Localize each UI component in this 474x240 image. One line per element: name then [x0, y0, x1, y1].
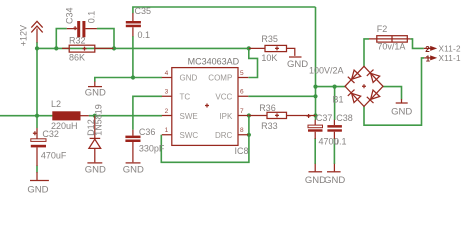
svg-text:330pF: 330pF — [139, 144, 165, 154]
svg-text:C32: C32 — [42, 129, 59, 139]
capacitor C35 — [126, 6, 151, 40]
svg-text:COMP: COMP — [208, 73, 232, 82]
svg-text:470uF: 470uF — [41, 151, 67, 161]
svg-text:1N5819: 1N5819 — [94, 104, 104, 136]
wire VCC pin6 — [248, 95, 315, 97]
wire X11-1 to bridge bottom — [364, 58, 424, 125]
ground C38 GND — [324, 164, 345, 186]
wire VCC rail vertical — [315, 7, 317, 120]
svg-text:4: 4 — [165, 70, 169, 77]
svg-text:L2: L2 — [51, 99, 61, 109]
bridge diode top-right — [367, 70, 380, 83]
bridge diode bottom-left — [348, 90, 361, 103]
wire C37 lower — [314, 138, 316, 164]
resistor R32 — [62, 36, 113, 63]
wire C35 top rail — [133, 7, 316, 13]
resistor R36 R33 — [249, 103, 316, 131]
connector pin X11-2 — [424, 44, 461, 53]
svg-text:GND: GND — [180, 73, 198, 82]
wire C38 drop — [334, 87, 336, 120]
ground pin4 GND — [85, 82, 106, 99]
svg-text:MC34063AD: MC34063AD — [188, 57, 240, 67]
svg-text:GND: GND — [85, 88, 106, 99]
svg-text:GND: GND — [391, 106, 412, 117]
wire SWC-DRC loop — [161, 116, 249, 163]
svg-text:X11-1: X11-1 — [439, 54, 461, 63]
fuse F2 — [369, 24, 410, 52]
bridge rectifier B1 — [309, 66, 383, 107]
svg-text:0.1: 0.1 — [334, 136, 347, 146]
svg-text:C37: C37 — [316, 113, 333, 123]
svg-text:+12V: +12V — [18, 25, 28, 46]
svg-text:C38: C38 — [336, 113, 353, 123]
ground bridge GND — [391, 99, 412, 117]
svg-text:B1: B1 — [333, 95, 344, 105]
ground D12 GND — [85, 163, 106, 175]
wire pin5 to R35 — [249, 48, 258, 77]
svg-text:TC: TC — [180, 93, 191, 102]
wire C35 to pin4 — [132, 36, 134, 78]
svg-text:IC8: IC8 — [235, 146, 249, 156]
wire main bus +12V — [37, 47, 249, 49]
ground C36 GND — [123, 163, 144, 175]
svg-text:2: 2 — [165, 108, 169, 115]
svg-text:SWC: SWC — [180, 131, 199, 140]
svg-text:DRC: DRC — [215, 131, 233, 140]
ground C32 GND — [27, 172, 49, 195]
svg-text:R33: R33 — [261, 121, 278, 131]
wire bridge to VCC — [316, 86, 347, 88]
svg-text:GND: GND — [287, 59, 308, 70]
svg-text:7: 7 — [240, 108, 244, 115]
svg-text:2: 2 — [425, 45, 430, 54]
svg-text:VCC: VCC — [215, 93, 232, 102]
svg-text:C34: C34 — [64, 7, 74, 24]
bridge diode top-left — [348, 70, 361, 83]
op-amp U1 IC8 MC34063AD box — [162, 57, 249, 156]
bridge diode bottom-right — [367, 90, 380, 103]
pin names IC8 — [180, 73, 233, 140]
svg-text:C36: C36 — [139, 127, 156, 137]
pin numbers IC8 — [165, 70, 244, 134]
inductor L2 — [51, 99, 89, 131]
wire +12V vertical — [36, 42, 38, 116]
svg-text:0.1: 0.1 — [138, 30, 151, 40]
svg-text:IPK: IPK — [219, 112, 233, 121]
connector pin X11-1 — [424, 54, 461, 63]
wire C34 loop — [56, 29, 114, 49]
svg-text:1: 1 — [165, 127, 169, 134]
supply +12V — [18, 21, 42, 46]
svg-text:5: 5 — [240, 70, 244, 77]
svg-text:GND: GND — [27, 184, 48, 195]
svg-text:8: 8 — [240, 127, 244, 134]
capacitor C32 polarized — [31, 128, 67, 166]
svg-text:F2: F2 — [377, 24, 388, 34]
wire SWE pin2 — [89, 115, 162, 117]
junction bus dots — [35, 46, 337, 137]
svg-text:100V/2A: 100V/2A — [309, 66, 344, 76]
capacitor C38 — [327, 113, 352, 147]
diode D12 1N5819 — [86, 104, 103, 162]
svg-text:1: 1 — [426, 54, 431, 63]
svg-text:GND: GND — [305, 175, 326, 186]
wire left input — [0, 115, 53, 117]
svg-text:86K: 86K — [69, 53, 85, 63]
svg-text:R35: R35 — [261, 34, 278, 44]
svg-text:70v/1A: 70v/1A — [377, 41, 405, 51]
ground R35 GND — [287, 57, 308, 70]
capacitor C37 polarized — [307, 113, 339, 147]
svg-text:GND: GND — [324, 175, 345, 186]
wire F2 to X11-2 — [410, 39, 424, 49]
svg-text:GND: GND — [123, 164, 144, 175]
wire C38 lower — [333, 138, 335, 164]
svg-text:R36: R36 — [259, 103, 276, 113]
ground C37 GND — [305, 164, 326, 186]
wire bridge right to GND — [383, 87, 402, 100]
wire bridge top to F2 — [364, 39, 369, 67]
svg-text:6: 6 — [240, 89, 244, 96]
wire C32 drop — [36, 116, 38, 173]
svg-text:3: 3 — [165, 89, 169, 96]
wire pin3 TC — [133, 96, 162, 130]
resistor R35 — [249, 34, 295, 63]
svg-text:0.1: 0.1 — [87, 11, 97, 24]
svg-text:C35: C35 — [135, 6, 152, 16]
svg-text:10K: 10K — [261, 53, 277, 63]
capacitor C34 — [64, 7, 97, 37]
svg-text:GND: GND — [85, 164, 106, 175]
wire GND pin4 — [95, 78, 162, 82]
capacitor C36 — [125, 127, 165, 162]
svg-text:SWE: SWE — [180, 112, 198, 121]
svg-text:X11-2: X11-2 — [439, 44, 461, 53]
